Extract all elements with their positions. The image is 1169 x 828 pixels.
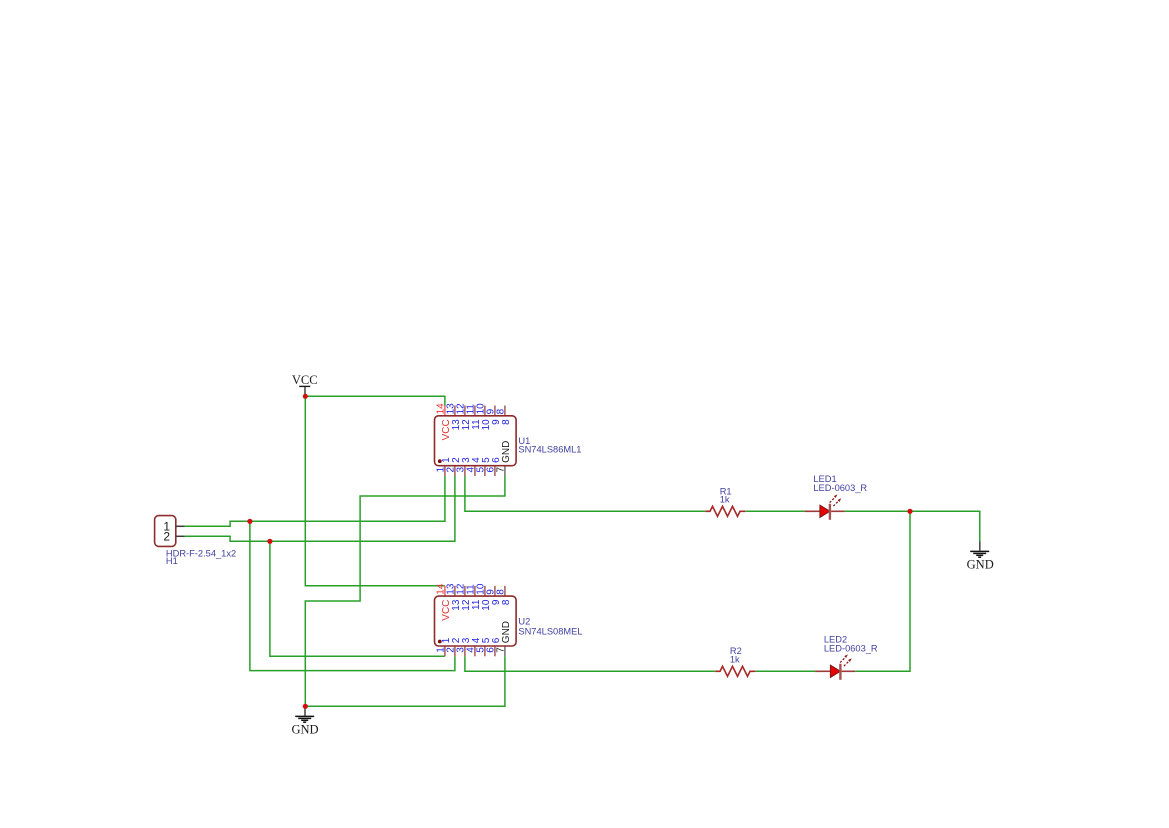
svg-text:7: 7	[495, 647, 506, 653]
svg-text:GND: GND	[291, 723, 318, 737]
svg-text:GND: GND	[967, 557, 994, 571]
svg-text:1k: 1k	[730, 654, 740, 664]
svg-text:GND: GND	[501, 441, 512, 463]
svg-text:2: 2	[163, 529, 170, 543]
svg-text:LED-0603_R: LED-0603_R	[813, 483, 867, 493]
svg-text:SN74LS08MEL: SN74LS08MEL	[518, 626, 582, 636]
svg-text:SN74LS86ML1: SN74LS86ML1	[518, 445, 581, 455]
svg-text:LED-0603_R: LED-0603_R	[824, 644, 878, 654]
svg-text:VCC: VCC	[292, 373, 318, 387]
svg-text:8: 8	[495, 589, 506, 595]
svg-text:8: 8	[495, 408, 506, 414]
svg-text:8: 8	[501, 599, 512, 605]
svg-text:H1: H1	[166, 556, 178, 566]
svg-text:GND: GND	[501, 621, 512, 643]
svg-text:1k: 1k	[720, 495, 730, 505]
svg-text:7: 7	[495, 466, 506, 472]
svg-text:U2: U2	[518, 617, 530, 627]
svg-text:8: 8	[501, 419, 512, 425]
